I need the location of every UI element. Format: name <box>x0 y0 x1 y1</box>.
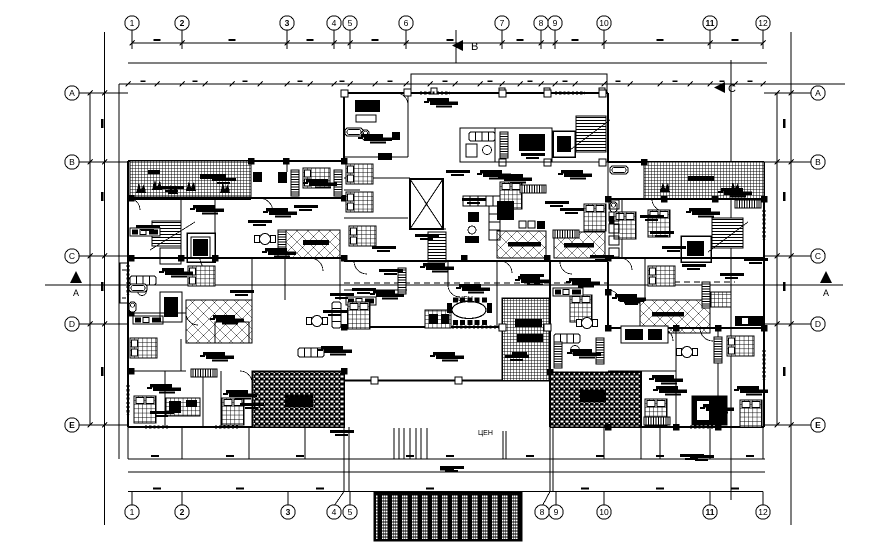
building exterior walls <box>128 93 764 427</box>
svg-text:8: 8 <box>539 18 544 28</box>
stair centre-right <box>570 116 610 152</box>
annotation leader streaks large <box>147 98 768 414</box>
svg-text:1: 1 <box>130 507 135 517</box>
svg-text:D: D <box>815 319 821 329</box>
bottom dimension line 3 <box>128 491 763 493</box>
bottom dimension line 1 <box>128 458 765 460</box>
elevator right wing <box>681 236 711 262</box>
svg-text:A: A <box>815 88 821 98</box>
grid bubbles top row 1-12 <box>125 16 770 30</box>
grid bubble stems bottom <box>132 492 763 505</box>
svg-text:12: 12 <box>758 18 768 28</box>
dimension text marks top line <box>154 39 739 41</box>
diamond tile hatch centre-right2 <box>554 232 605 258</box>
left vertical dimension lines <box>88 32 120 525</box>
svg-text:3: 3 <box>285 18 290 28</box>
planted roof hatch top-left <box>130 161 251 200</box>
svg-text:11: 11 <box>706 18 715 28</box>
furniture <box>129 100 763 427</box>
grid bubbles bottom row <box>125 505 770 519</box>
svg-text:8: 8 <box>540 507 545 517</box>
elevator shaft X centre <box>410 179 443 229</box>
svg-text:C: C <box>69 251 75 261</box>
second dimension line <box>128 62 767 64</box>
grid bubble stubs left <box>79 93 128 425</box>
stair left wing <box>150 221 195 264</box>
door swing arcs <box>128 93 713 383</box>
right vertical dimension lines <box>775 32 794 525</box>
svg-text:3: 3 <box>286 507 291 517</box>
annotation leader streaks small <box>136 153 768 472</box>
stair right wing <box>708 218 748 252</box>
garage ramp hatch block bottom centre <box>375 493 522 540</box>
dimension text marks bottom line 3 <box>153 487 739 489</box>
svg-text:1: 1 <box>130 18 135 28</box>
ticked dimension line upper <box>119 80 845 86</box>
section marker B arrow <box>452 40 478 53</box>
svg-text:2: 2 <box>180 18 185 28</box>
room label lower <box>478 430 493 437</box>
svg-text:ЦЕН: ЦЕН <box>458 296 473 303</box>
dark paving hatch bottom-left <box>252 371 344 427</box>
entrance canopy outline <box>411 74 607 93</box>
svg-text:5: 5 <box>348 18 353 28</box>
elevator left wing <box>187 233 215 262</box>
svg-text:4: 4 <box>332 18 337 28</box>
stair centre <box>428 232 446 262</box>
extension lines bottom <box>128 427 763 492</box>
section arrow A right <box>820 271 832 298</box>
diamond tile hatch left <box>186 300 252 343</box>
svg-text:D: D <box>69 319 75 329</box>
svg-text:B: B <box>815 157 821 167</box>
grid bubble stubs right <box>764 93 811 425</box>
bathroom fixtures <box>609 200 619 257</box>
canopy columns <box>431 88 605 94</box>
planted roof hatch top-right <box>644 162 764 199</box>
svg-text:ЦЕН: ЦЕН <box>478 430 493 437</box>
section marker C arrow <box>714 82 736 95</box>
diamond tile hatch centre-right <box>497 231 546 258</box>
svg-text:2: 2 <box>180 507 185 517</box>
svg-text:C: C <box>728 83 736 95</box>
svg-text:E: E <box>69 420 75 430</box>
svg-text:A: A <box>69 88 75 98</box>
svg-text:9: 9 <box>554 507 559 517</box>
grid bubbles right column A-E <box>811 86 825 432</box>
svg-text:A: A <box>73 288 79 298</box>
svg-text:B: B <box>69 157 75 167</box>
grid bubbles left column A-E <box>65 86 79 432</box>
dimension text marks bottom line 1 <box>151 455 754 457</box>
svg-text:7: 7 <box>500 18 505 28</box>
svg-text:4: 4 <box>332 507 337 517</box>
corridor dashed line <box>344 282 735 283</box>
svg-text:B: B <box>471 41 478 53</box>
section cut line A-A <box>45 284 843 286</box>
column blocks <box>128 158 768 431</box>
room label centre <box>458 296 473 303</box>
diamond tile hatch centre-left <box>285 230 340 258</box>
section line C vertical <box>730 60 732 500</box>
svg-text:12: 12 <box>758 507 768 517</box>
svg-text:A: A <box>823 288 829 298</box>
svg-text:10: 10 <box>599 18 609 28</box>
section arrow A left <box>70 271 82 298</box>
svg-text:6: 6 <box>404 18 409 28</box>
diamond tile hatch right <box>640 300 710 333</box>
bottom dimension line 2 <box>128 468 765 472</box>
svg-text:E: E <box>815 420 821 430</box>
interior partition walls <box>128 93 764 427</box>
grid bubble stems top <box>132 31 763 50</box>
balcony bump left edge <box>120 263 128 303</box>
elevator centre-right <box>553 131 575 157</box>
grid hatch centre tower <box>502 298 549 381</box>
svg-text:9: 9 <box>553 18 558 28</box>
window wall dotted segments <box>128 93 764 427</box>
svg-text:5: 5 <box>348 507 353 517</box>
top dimension line <box>130 41 766 46</box>
dark paving hatch bottom-right <box>550 372 641 427</box>
column blocks white <box>341 89 606 384</box>
svg-text:C: C <box>815 251 821 261</box>
svg-text:11: 11 <box>706 507 715 517</box>
section line B stem <box>455 30 457 63</box>
svg-text:10: 10 <box>599 507 609 517</box>
